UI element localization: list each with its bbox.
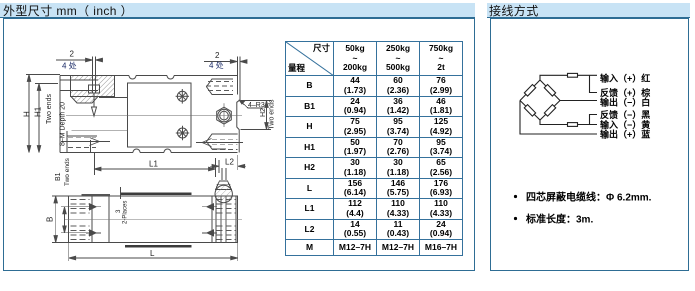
bottom view centerline xyxy=(64,218,242,220)
left title xyxy=(3,2,133,19)
thick flexure bar top xyxy=(121,193,192,195)
thick flexure bar bottom xyxy=(125,245,192,247)
wire feedback- black xyxy=(590,115,598,125)
dim L2 xyxy=(210,155,246,173)
wire output+ blue xyxy=(520,101,597,135)
left lower block xyxy=(61,130,128,152)
bridge arm bottom-left xyxy=(520,101,540,121)
left pin xyxy=(92,57,94,94)
right panel box xyxy=(490,18,689,272)
gauge target bottom xyxy=(176,126,189,141)
dim 3 2-Places xyxy=(116,187,129,224)
bullet 2 xyxy=(514,217,517,220)
right title xyxy=(489,2,539,19)
left title band xyxy=(0,3,475,18)
left panel box xyxy=(3,18,475,272)
hex nut xyxy=(217,103,232,127)
dim L xyxy=(69,243,238,262)
dim H1 xyxy=(34,84,59,153)
left hole arrows xyxy=(90,204,97,210)
inline resistor bottom xyxy=(568,123,578,127)
side view centerline xyxy=(66,115,242,117)
spec table xyxy=(285,41,463,256)
pocket edge thick segment xyxy=(82,194,111,196)
left end block hatched xyxy=(60,76,115,97)
right title band xyxy=(487,3,690,18)
body top line xyxy=(60,75,129,77)
dim 2 left xyxy=(56,50,103,71)
gauge R bottom-right xyxy=(544,105,555,117)
bottom view outline xyxy=(69,196,238,243)
wire output- white xyxy=(560,100,597,102)
dim L1 xyxy=(94,153,216,177)
pin nut square xyxy=(89,85,100,93)
bridge arm bottom-right xyxy=(540,101,560,121)
bullet 1 xyxy=(514,195,517,198)
short line right of block xyxy=(99,97,127,99)
bridge arm top-right xyxy=(540,80,560,101)
callout 4-R3 xyxy=(239,100,265,109)
right inner edge line xyxy=(235,196,237,243)
body left edge xyxy=(59,76,61,153)
wire input+ red xyxy=(540,75,597,80)
body bottom line xyxy=(60,152,133,154)
inline resistor top xyxy=(568,73,578,77)
dim 2 right xyxy=(204,51,247,70)
gauge target top xyxy=(176,89,189,104)
dim H xyxy=(23,75,61,153)
wire labels xyxy=(600,73,650,140)
bridge arm top-left xyxy=(520,80,540,101)
right thread dashes xyxy=(217,200,237,240)
bullet notes xyxy=(514,191,652,226)
left thread dashes top group xyxy=(71,200,90,240)
dim B1 xyxy=(61,207,86,233)
gauge R top-left xyxy=(524,85,535,97)
left block lower wedge (hatched) xyxy=(71,97,98,104)
gauge R top-right xyxy=(544,85,555,97)
wire input- yellow xyxy=(540,120,597,125)
pin down arrow xyxy=(92,94,97,117)
wire feedback+ brown xyxy=(590,75,598,92)
right end profile xyxy=(237,73,240,153)
right lower block xyxy=(196,134,243,150)
load pin to bottom view xyxy=(215,168,232,203)
internal verticals left xyxy=(91,196,93,243)
dim B xyxy=(46,196,69,243)
cavity rectangle xyxy=(128,83,192,147)
load hole hidden lines xyxy=(220,196,222,243)
right pin xyxy=(236,57,238,95)
right upper block xyxy=(206,79,233,95)
internal vertical right xyxy=(211,196,213,243)
gauge R bottom-left xyxy=(524,105,535,117)
right hole arrows xyxy=(207,204,214,210)
dim H2 xyxy=(241,99,276,129)
